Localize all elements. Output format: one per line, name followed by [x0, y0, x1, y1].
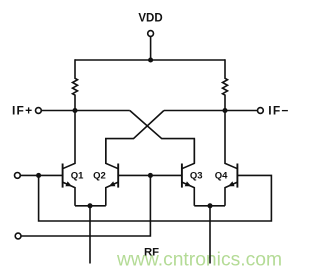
svg-text:www.cntronics.com: www.cntronics.com	[116, 250, 282, 271]
svg-text:VDD: VDD	[138, 13, 162, 25]
svg-text:Q4: Q4	[215, 170, 228, 181]
svg-text:Q3: Q3	[190, 170, 203, 181]
svg-text:IF+: IF+	[12, 103, 33, 117]
svg-text:IF−: IF−	[268, 103, 289, 117]
svg-text:RF: RF	[144, 247, 159, 259]
svg-text:Q2: Q2	[93, 170, 106, 181]
svg-text:Q1: Q1	[71, 170, 84, 181]
